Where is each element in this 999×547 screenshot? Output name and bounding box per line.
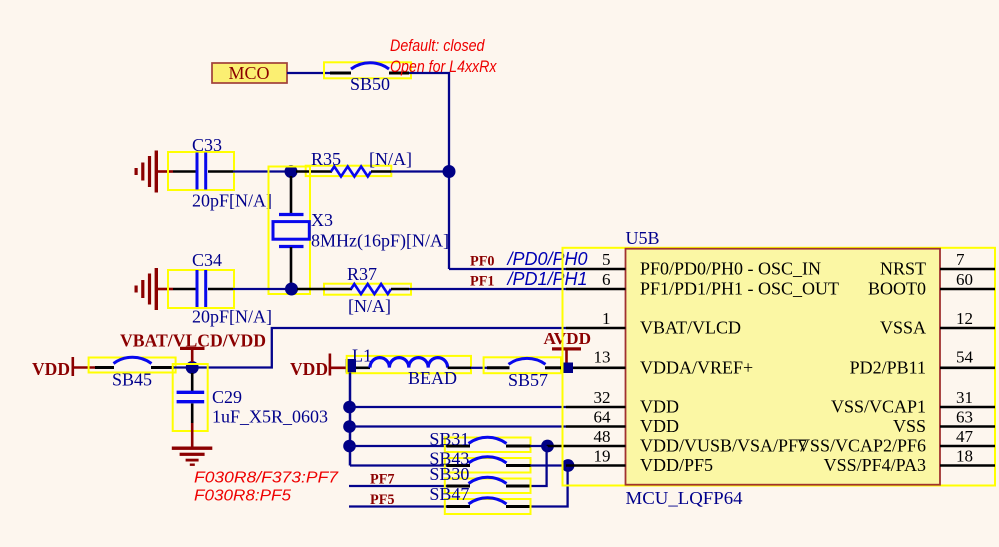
power port AVDD [544, 329, 592, 363]
svg-text:VSSA: VSSA [880, 318, 926, 338]
svg-text:31: 31 [956, 388, 973, 407]
svg-text:BEAD: BEAD [408, 368, 457, 388]
svg-text:VDD/VUSB/VSA/PF7: VDD/VUSB/VSA/PF7 [640, 436, 807, 456]
wire junction to pin 48 [547, 445, 566, 448]
solder bridge SB31 [429, 429, 530, 452]
junction VDD/L1 node (square) [346, 359, 357, 373]
wire VBAT node to pin 1 [198, 328, 567, 368]
VDD rail vertical [349, 373, 352, 466]
capacitor C34 [168, 250, 272, 327]
port MCO [212, 63, 287, 83]
wire C33 to junction [233, 170, 291, 172]
svg-text:7: 7 [956, 250, 965, 269]
svg-text:VDD: VDD [640, 397, 679, 417]
svg-text:VSS/PF4/PA3: VSS/PF4/PA3 [824, 455, 926, 475]
inductor L1 BEAD [347, 346, 471, 389]
svg-text:U5B: U5B [626, 228, 660, 248]
solder bridge SB30 [429, 464, 530, 493]
svg-text:SB45: SB45 [112, 370, 152, 390]
solder bridge SB43 [429, 449, 530, 473]
svg-text:54: 54 [956, 348, 974, 367]
svg-text:VSS: VSS [893, 416, 926, 436]
wire SB43 to junction [531, 464, 568, 466]
solder bridge SB45 [89, 357, 176, 389]
wire vertical to pin 5 [449, 268, 566, 270]
ground (C29) [172, 447, 213, 466]
svg-text:SB57: SB57 [508, 370, 548, 390]
svg-text:VDD: VDD [290, 359, 328, 379]
svg-text:20pF[N/A]: 20pF[N/A] [192, 191, 272, 211]
svg-text:C34: C34 [192, 250, 222, 270]
wire pin48 node down to SB30 [529, 446, 547, 486]
svg-text:AVDD: AVDD [544, 329, 592, 348]
svg-text:8MHz(16pF)[N/A]: 8MHz(16pF)[N/A] [311, 231, 449, 252]
svg-text:X3: X3 [311, 210, 333, 230]
wire R37 to pin 6 [409, 288, 566, 290]
pin 47 [940, 445, 995, 448]
svg-text:32: 32 [594, 388, 611, 407]
svg-text:SB30: SB30 [429, 464, 469, 484]
svg-text:MCO: MCO [228, 63, 269, 83]
svg-text:PF0/PD0/PH0 - OSC_IN: PF0/PD0/PH0 - OSC_IN [640, 259, 821, 279]
svg-text:C33: C33 [192, 135, 222, 155]
svg-text:13: 13 [594, 348, 611, 367]
pin 32 [566, 406, 626, 409]
junction (X3 bottom node) [285, 283, 298, 296]
wire rail to pin 64 [350, 425, 566, 427]
svg-text:64: 64 [594, 408, 612, 427]
svg-text:18: 18 [956, 447, 973, 466]
svg-text:47: 47 [956, 427, 974, 446]
svg-text:[N/A]: [N/A] [348, 296, 391, 316]
svg-text:5: 5 [602, 250, 611, 269]
junction rail/pin64 [343, 420, 356, 433]
pin 64 [566, 425, 626, 428]
wire pin19 node down to SB47 [529, 466, 568, 507]
pin 63 [940, 425, 995, 428]
svg-text:48: 48 [594, 427, 611, 446]
svg-text:SB47: SB47 [429, 484, 469, 504]
svg-text:SB31: SB31 [429, 429, 469, 449]
svg-text:R37: R37 [347, 264, 377, 284]
svg-text:F030R8/F373:PF7: F030R8/F373:PF7 [194, 470, 340, 487]
pin 12 [940, 327, 995, 330]
svg-text:VDD: VDD [640, 416, 679, 436]
svg-text:60: 60 [956, 270, 973, 289]
svg-text:/PD0/PH0: /PD0/PH0 [506, 249, 588, 269]
pin 7 [940, 268, 995, 271]
pin 1 [566, 327, 626, 330]
solder bridge SB50 [324, 62, 411, 94]
crystal X3 [269, 167, 449, 295]
junction rail/SB31 [343, 440, 356, 453]
wire SB31 to junction [531, 445, 547, 447]
svg-text:VDDA/VREF+: VDDA/VREF+ [640, 357, 753, 377]
svg-text:PD2/PB11: PD2/PB11 [850, 357, 926, 377]
svg-text:VDD: VDD [32, 359, 70, 379]
svg-text:PF1: PF1 [470, 274, 495, 290]
svg-text:MCU_LQFP64: MCU_LQFP64 [626, 488, 743, 508]
svg-text:19: 19 [594, 447, 611, 466]
svg-text:F030R8:PF5: F030R8:PF5 [194, 488, 291, 505]
svg-text:PF1/PD1/PH1 - OSC_OUT: PF1/PD1/PH1 - OSC_OUT [640, 279, 839, 299]
ground (C34) [135, 268, 174, 310]
wire C29 to ground [191, 423, 194, 447]
pin 54 [940, 366, 995, 369]
wire SB45 to junction [174, 366, 192, 368]
junction pin48 node [541, 440, 554, 453]
capacitor C33 [168, 135, 272, 211]
svg-text:Default: closed: Default: closed [390, 37, 485, 55]
capacitor C29 [173, 364, 328, 431]
svg-text:1: 1 [602, 309, 611, 328]
pin 19 [566, 464, 626, 467]
pin 13 [573, 366, 626, 369]
wire PF5 to SB47 [349, 505, 447, 507]
svg-text:6: 6 [602, 270, 611, 289]
pin 6 [566, 288, 626, 291]
junction AVDD/pin13 node (square) [562, 363, 574, 374]
svg-text:C29: C29 [212, 387, 242, 407]
svg-text:NRST: NRST [880, 259, 926, 279]
junction VBAT node [186, 361, 199, 374]
svg-text:L1: L1 [352, 346, 372, 366]
svg-text:20pF[N/A]: 20pF[N/A] [192, 307, 272, 327]
svg-text:R35: R35 [311, 149, 341, 169]
wire rail corner to SB43 [350, 464, 447, 466]
svg-text:BOOT0: BOOT0 [868, 279, 926, 299]
wire L1 to SB57 [471, 367, 487, 369]
svg-text:1uF_X5R_0603: 1uF_X5R_0603 [212, 407, 328, 427]
svg-text:VSS/VCAP2/PF6: VSS/VCAP2/PF6 [797, 436, 926, 456]
IC U5B body [626, 249, 941, 485]
svg-text:/PD1/PH1: /PD1/PH1 [506, 269, 588, 289]
svg-text:12: 12 [956, 309, 973, 328]
pin 5 [566, 268, 626, 271]
wire C34 to junction [233, 288, 291, 290]
junction (R35 / vertical) [443, 165, 456, 178]
power port VBAT/VLCD/VDD [120, 331, 266, 363]
solder bridge SB57 [484, 357, 561, 390]
wire rail to SB31 [350, 445, 447, 447]
pin 48 [566, 445, 626, 448]
IC U5B selection box [563, 248, 996, 486]
pin 31 [940, 406, 995, 409]
power port VDD (left) [32, 357, 95, 379]
svg-text:VSS/VCAP1: VSS/VCAP1 [831, 397, 926, 417]
svg-text:VBAT/VLCD: VBAT/VLCD [640, 318, 741, 338]
wire R35 to vertical [391, 170, 449, 172]
wire rail to pin 32 [350, 406, 566, 408]
pin 60 [940, 288, 995, 291]
junction rail/pin32 [343, 401, 356, 414]
svg-text:PF0: PF0 [470, 254, 495, 270]
solder bridge SB47 [429, 484, 530, 514]
svg-text:SB50: SB50 [350, 74, 390, 94]
ground (C33) [135, 151, 174, 193]
wire PF7 to SB30 [349, 485, 447, 487]
svg-text:VDD/PF5: VDD/PF5 [640, 455, 713, 475]
resistor R35 [296, 149, 412, 177]
pin 18 [940, 464, 995, 467]
junction pin19 node [562, 459, 575, 472]
svg-text:[N/A]: [N/A] [369, 149, 412, 169]
wire MCO to SB50 [287, 72, 332, 74]
svg-text:63: 63 [956, 408, 973, 427]
junction (X3 top node) [285, 165, 298, 178]
power port VDD (mid) [290, 354, 348, 380]
wire SB50 to vertical drop [409, 73, 449, 269]
resistor R37 [297, 264, 411, 316]
